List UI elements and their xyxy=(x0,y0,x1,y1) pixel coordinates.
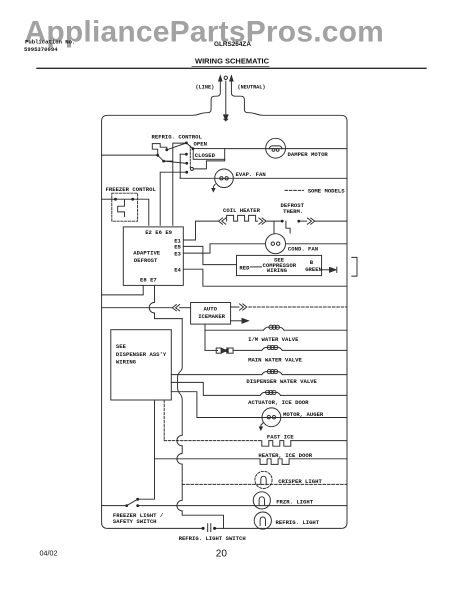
wire arm C to lower contact xyxy=(164,161,187,163)
wire wall to thermostat xyxy=(102,154,158,156)
defrost thermostat xyxy=(286,221,290,233)
crisper lamp dashed xyxy=(255,471,272,488)
wire freezer light row xyxy=(102,505,127,507)
motor auger xyxy=(262,408,281,427)
wire E1 to coil heater row xyxy=(183,221,217,240)
svg-text:THERM.: THERM. xyxy=(283,208,303,215)
wire E4 to neutral bus xyxy=(183,269,347,286)
node lower contact 2 xyxy=(185,171,188,174)
svg-text:REFRIG. LIGHT SWITCH: REFRIG. LIGHT SWITCH xyxy=(179,535,246,542)
connector chevrons icemaker right xyxy=(231,304,247,310)
node safety switch lower xyxy=(136,504,139,507)
bus continue to refrig light jog xyxy=(177,480,224,528)
svg-text:GLRS264ZA: GLRS264ZA xyxy=(214,41,251,48)
node freezer control left xyxy=(114,198,117,201)
svg-text:GREEN: GREEN xyxy=(305,266,322,273)
wire arm A to C xyxy=(158,155,164,161)
svg-text:FREEZER CONTROL: FREEZER CONTROL xyxy=(106,186,157,193)
wire main valve row xyxy=(233,349,262,351)
wire switch arm B to OPEN contact xyxy=(167,143,187,150)
wire frzr light row xyxy=(138,505,347,507)
wire main valve connector feed xyxy=(205,349,218,351)
header rule xyxy=(37,67,426,69)
svg-text:CLOSED: CLOSED xyxy=(195,152,216,159)
wire E7 drop with hop xyxy=(149,285,182,318)
wire actuator feed drop xyxy=(171,382,260,395)
wire LINE bus: staircase + left wall + bottom bus to switch xyxy=(102,81,221,528)
svg-text:SEE: SEE xyxy=(116,343,127,350)
freezer control thermostat element xyxy=(116,199,133,216)
wire drop to cond fan top xyxy=(273,221,275,234)
wire E3 to cond fan row xyxy=(183,244,265,253)
wire damper row xyxy=(225,148,347,150)
freezer control dashed box xyxy=(112,193,138,221)
coil dispenser water valve xyxy=(262,372,283,375)
svg-text:RED: RED xyxy=(239,265,250,272)
svg-text:SAFETY SWITCH: SAFETY SWITCH xyxy=(113,518,157,525)
heater ice door element xyxy=(260,459,289,465)
svg-text:AppliancePartsPros.com: AppliancePartsPros.com xyxy=(25,16,385,49)
coil main water valve xyxy=(262,347,283,350)
svg-text:WIRING: WIRING xyxy=(116,358,137,365)
refrig control sensor bracket xyxy=(152,144,167,156)
wire freezer control to E2 drop xyxy=(133,199,149,225)
svg-text:DISPENSER WATER VALVE: DISPENSER WATER VALVE xyxy=(246,378,317,385)
svg-text:DAMPER MOTOR: DAMPER MOTOR xyxy=(288,151,329,158)
wire E5 to compressor red xyxy=(183,246,236,264)
svg-text:04/02: 04/02 xyxy=(40,549,58,558)
node pole 1 xyxy=(192,147,195,150)
svg-text:COND. FAN: COND. FAN xyxy=(288,246,318,253)
adaptive defrost box xyxy=(123,227,183,286)
connector bracket outside wall xyxy=(352,257,357,276)
arrow LINE up xyxy=(219,76,222,81)
wire closed drop to evap row xyxy=(179,154,181,178)
cond fan motor xyxy=(266,234,286,254)
wire I/M water valve row xyxy=(205,329,264,331)
svg-text:Publication No.: Publication No. xyxy=(25,39,75,46)
frzr lamp xyxy=(253,492,270,509)
wire cond fan to wall xyxy=(286,243,348,245)
node therm right xyxy=(297,220,300,223)
wire C bus to OPEN contact and E9 drop xyxy=(164,143,187,225)
wire therm to chevrons xyxy=(299,220,307,222)
wire closed contact stub xyxy=(180,153,186,155)
ground at auger xyxy=(261,423,263,428)
auto icemaker box xyxy=(191,303,231,325)
svg-text:AUTO: AUTO xyxy=(204,305,218,312)
safety switch arm xyxy=(127,499,138,505)
svg-text:OPEN: OPEN xyxy=(194,140,207,147)
svg-text:I/M WATER VALVE: I/M WATER VALVE xyxy=(248,336,299,343)
ground at evap fan xyxy=(213,184,215,189)
node lower contact 1 xyxy=(185,162,188,165)
wire safety switch upper to dispenser drop xyxy=(138,400,155,499)
wire fast ice dashed drop xyxy=(163,400,165,441)
svg-text:HEATER, ICE DOOR: HEATER, ICE DOOR xyxy=(258,452,312,459)
wire dashed to wall some models xyxy=(249,306,347,308)
ground terminal circle xyxy=(224,76,227,79)
node CLOSED contact xyxy=(185,153,188,156)
long bus E7 down right of dispenser box with hops xyxy=(177,319,182,481)
wire heater ice door row xyxy=(155,458,261,460)
node OPEN contact xyxy=(185,142,188,145)
svg-text:REFRIG. LIGHT: REFRIG. LIGHT xyxy=(276,519,320,526)
svg-text:ACTUATOR, ICE DOOR: ACTUATOR, ICE DOOR xyxy=(248,399,309,406)
mechanical link dashed xyxy=(189,146,191,169)
node safety switch left xyxy=(125,504,128,507)
wire green with arrow xyxy=(322,269,329,271)
wire icemaker feed from wall with hop xyxy=(102,307,173,309)
refrig lamp xyxy=(254,512,271,529)
wire NEUTRAL bus: staircase + right wall xyxy=(215,81,347,528)
svg-text:E3: E3 xyxy=(174,250,181,257)
node B refrig control xyxy=(165,148,168,151)
svg-text:5995370094: 5995370094 xyxy=(24,46,58,53)
wire E8 to wall xyxy=(102,285,144,295)
connector chevrons right xyxy=(259,218,266,224)
damper motor xyxy=(266,138,286,158)
connector chevrons left xyxy=(219,218,226,224)
see dispenser assy wiring box xyxy=(111,330,172,400)
node safety switch upper xyxy=(136,498,139,501)
title underline xyxy=(192,66,269,68)
svg-text:FAST ICE: FAST ICE xyxy=(267,434,294,441)
wire icemaker box bottom drop xyxy=(204,324,206,350)
coil I/M water valve xyxy=(264,327,285,330)
svg-text:E8 E7: E8 E7 xyxy=(140,277,157,284)
svg-text:FRZR. LIGHT: FRZR. LIGHT xyxy=(276,498,314,505)
wire to defrost therm xyxy=(266,220,282,222)
compressor box xyxy=(237,255,322,275)
svg-text:ICEMAKER: ICEMAKER xyxy=(198,313,225,320)
label CLOSED box xyxy=(193,149,225,160)
svg-text:COIL HEATER: COIL HEATER xyxy=(223,207,261,214)
wire crisper dashed row xyxy=(182,483,347,485)
svg-text:SOME MODELS: SOME MODELS xyxy=(308,188,346,195)
evap fan motor xyxy=(215,169,234,188)
svg-text:MAIN WATER VALVE: MAIN WATER VALVE xyxy=(248,356,302,363)
node A refrig control xyxy=(156,154,159,157)
svg-text:WIRING SCHEMATIC: WIRING SCHEMATIC xyxy=(195,57,270,66)
fast ice heater element xyxy=(262,441,291,447)
wire lower contact 2 to E6 drop xyxy=(160,172,187,225)
connector plug main valve xyxy=(216,348,221,353)
refrig light switch (bottom) xyxy=(202,527,205,530)
svg-text:DISPENSER ASS'Y: DISPENSER ASS'Y xyxy=(116,351,167,358)
node therm left xyxy=(281,220,284,223)
svg-text:DEFROST: DEFROST xyxy=(134,257,158,264)
svg-text:(LINE): (LINE) xyxy=(196,85,215,91)
coil heater element xyxy=(227,215,258,221)
coil actuator ice door xyxy=(260,392,281,395)
wire icemaker lower output with arrow xyxy=(231,320,242,322)
svg-text:(NEUTRAL): (NEUTRAL) xyxy=(238,85,266,91)
svg-text:EVAP. FAN: EVAP. FAN xyxy=(236,171,266,178)
svg-text:MOTOR, AUGER: MOTOR, AUGER xyxy=(283,411,324,418)
connector chevrons right 2 xyxy=(307,218,314,224)
arrow NEUTRAL up xyxy=(230,76,233,81)
svg-text:CRISPER LIGHT: CRISPER LIGHT xyxy=(278,478,322,485)
wire switch blade OPEN to pole corner xyxy=(186,143,193,149)
svg-text:20: 20 xyxy=(216,549,228,560)
connector chevrons icemaker left xyxy=(172,305,179,311)
wire wall to freezer control xyxy=(102,198,116,200)
wire closed-box steps to pole 2 xyxy=(193,159,224,169)
wire evap fan row xyxy=(180,177,347,179)
svg-text:E2 E6 E9: E2 E6 E9 xyxy=(145,229,172,236)
svg-text:WIRING: WIRING xyxy=(267,267,288,274)
wire center ground drop with down arrow xyxy=(225,81,227,115)
svg-text:ADAPTIVE: ADAPTIVE xyxy=(133,250,160,257)
node C refrig control xyxy=(162,160,165,163)
wire to right wall xyxy=(315,220,347,222)
node pole 2 open circle xyxy=(190,167,193,170)
wire dispenser valve row xyxy=(171,374,261,376)
node freezer control right xyxy=(131,198,134,201)
wire auger feed from dispenser box xyxy=(171,392,347,418)
svg-text:E4: E4 xyxy=(174,267,181,274)
wire fast ice dashed row xyxy=(164,440,262,442)
legend dashed some models xyxy=(285,189,304,191)
